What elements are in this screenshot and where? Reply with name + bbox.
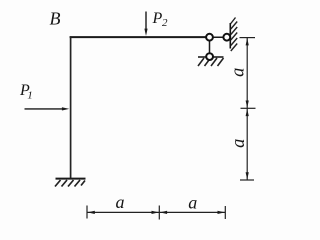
svg-text:B: B	[50, 8, 61, 28]
load P1 arrow	[25, 107, 70, 110]
horizontal dimension middle tick	[158, 206, 160, 220]
horizontal dimension line	[87, 211, 225, 213]
fixed support ground line at column base	[56, 178, 86, 180]
svg-text:P: P	[152, 10, 163, 27]
horizontal dimension left arrow	[88, 211, 95, 214]
vertical dimension bottom arrow (down)	[246, 172, 249, 179]
svg-text:a: a	[229, 68, 249, 77]
wall hatching	[231, 18, 237, 52]
vertical dimension top arrow (up)	[246, 38, 249, 45]
vertical link from pin to ground roller	[209, 37, 211, 56]
vertical dimension bottom tick	[240, 179, 254, 181]
vertical dimension line	[246, 38, 248, 180]
beam (top horizontal member from B corner to pin)	[70, 36, 206, 38]
svg-text:2: 2	[162, 17, 168, 29]
column (left vertical member)	[70, 36, 72, 178]
wall line (right support)	[229, 23, 231, 49]
horizontal dimension left tick	[86, 206, 88, 219]
vertical dimension middle arrows	[246, 101, 249, 108]
horizontal dimension right tick	[224, 206, 226, 219]
horizontal dimension right arrow	[218, 211, 225, 214]
link from pin to wall roller	[210, 36, 227, 38]
hinge pin circle at beam end	[206, 34, 213, 41]
vertical dimension middle tick	[241, 107, 256, 109]
svg-text:a: a	[188, 192, 197, 212]
ground hatching under lower roller	[198, 58, 224, 66]
svg-text:1: 1	[27, 89, 33, 101]
fixed support hatching	[55, 180, 85, 187]
svg-text:a: a	[116, 192, 125, 212]
load P2 arrow	[144, 12, 147, 37]
horizontal dimension middle arrows	[152, 211, 159, 214]
wall roller circle	[223, 34, 230, 41]
ground line under lower roller	[198, 56, 224, 58]
ground roller circle	[206, 53, 213, 60]
vertical dimension top tick	[240, 37, 256, 39]
svg-text:a: a	[229, 139, 249, 148]
